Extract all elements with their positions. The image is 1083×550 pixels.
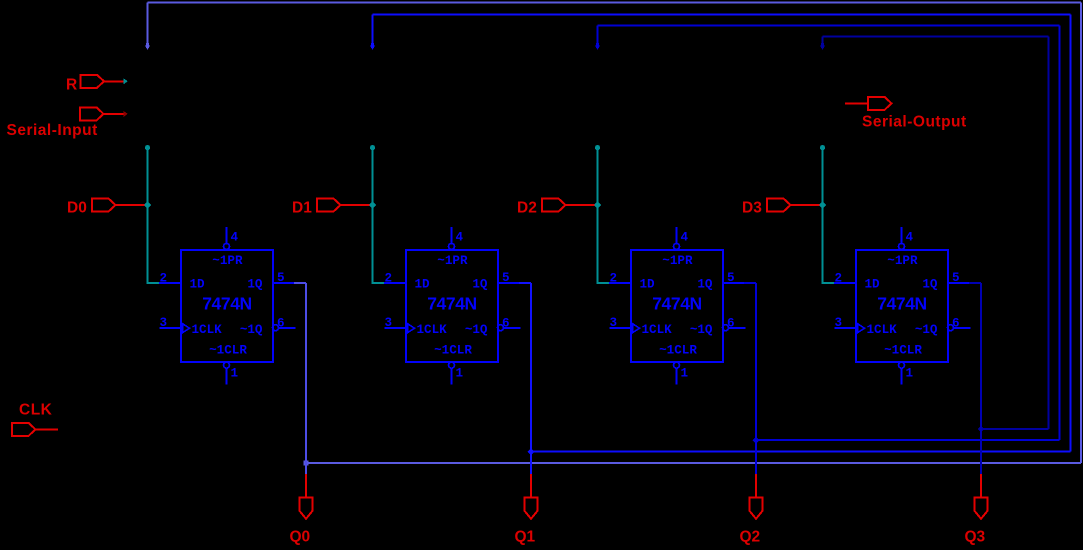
- pin number U2 5: [502, 271, 510, 285]
- pin number U1 5: [277, 271, 285, 285]
- svg-text:7474N: 7474N: [652, 294, 702, 314]
- wire U1 pin 6 stub: [279, 327, 296, 329]
- wire U4 pin 4 stub: [901, 227, 903, 243]
- wire net Q1 right vertical: [1069, 15, 1071, 452]
- clock edge triangle U2 pin 3: [408, 324, 415, 333]
- wire U4 pin 6 stub: [954, 327, 971, 329]
- port Q1: [525, 497, 538, 519]
- wire net Q3 right vertical: [1047, 36, 1049, 429]
- node junction D0 port to column: [144, 201, 151, 208]
- wire net Q1 feedback top horizontal: [373, 14, 1071, 16]
- svg-text:7474N: 7474N: [202, 294, 252, 314]
- wire U2 pin 2 stub: [384, 282, 406, 284]
- svg-text:~1CLR: ~1CLR: [659, 344, 697, 358]
- svg-text:3: 3: [835, 316, 843, 330]
- pin number U2 3: [385, 316, 393, 330]
- svg-text:2: 2: [160, 272, 168, 286]
- wire U1 pin 1 stub: [226, 368, 228, 384]
- label Q1: [515, 529, 536, 546]
- wire net D1 teal vertical column: [372, 147, 374, 285]
- wire port D1 stub: [340, 204, 370, 206]
- node net Serial-Input connector arrow: [123, 111, 127, 117]
- svg-text:1D: 1D: [640, 278, 656, 292]
- port D0: [92, 199, 116, 212]
- wire U4 pin 2 stub: [834, 282, 856, 284]
- svg-text:6: 6: [727, 317, 735, 331]
- node net Q3 on-page connector arrow: [820, 43, 826, 50]
- node net Q1 on-page connector arrow: [370, 43, 376, 50]
- node junction net Q3 at Q column: [978, 426, 985, 433]
- svg-text:1CLK: 1CLK: [642, 323, 673, 337]
- wire port Serial-Input stub: [104, 113, 124, 115]
- port D3: [767, 199, 791, 212]
- pin number U2 2: [385, 272, 393, 286]
- flip-flop U4 7474N body outline: [856, 250, 948, 362]
- node junction net Q2 at Q column: [753, 437, 760, 444]
- wire net Q2 bottom horizontal: [756, 439, 1060, 441]
- wire net Q2 right vertical: [1059, 26, 1061, 441]
- svg-text:Serial-Output: Serial-Output: [862, 114, 967, 131]
- svg-text:2: 2: [385, 272, 393, 286]
- clock edge triangle U1 pin 3: [183, 324, 190, 333]
- wire port Q2 stub: [755, 474, 757, 497]
- wire net Q0 vertical to port: [305, 283, 307, 474]
- svg-text:~1PR: ~1PR: [887, 254, 918, 268]
- pin number U4 1: [906, 367, 914, 381]
- bubble U1 pin 1: [224, 362, 230, 368]
- label D0: [67, 200, 87, 217]
- svg-text:1D: 1D: [415, 278, 431, 292]
- svg-text:2: 2: [835, 272, 843, 286]
- node junction net Q1 at Q column: [528, 448, 535, 455]
- flip-flop U3 7474N body outline: [631, 250, 723, 362]
- wire U3 pin 3 stub: [610, 327, 632, 329]
- wire net Q3 bottom horizontal: [981, 428, 1048, 430]
- op label U1 value 7474N: [202, 294, 252, 314]
- svg-text:CLK: CLK: [19, 402, 53, 419]
- label D1: [292, 200, 312, 217]
- wire net D2 teal horizontal to pin 1D: [598, 282, 611, 284]
- label U4 1D: [865, 278, 881, 292]
- clock edge triangle U4 pin 3: [858, 324, 865, 333]
- svg-text:~1CLR: ~1CLR: [209, 344, 247, 358]
- wire net Q0 right vertical: [1080, 3, 1082, 464]
- wire U3 pin 2 stub: [609, 282, 631, 284]
- svg-text:~1Q: ~1Q: [915, 323, 938, 337]
- svg-text:1CLK: 1CLK: [417, 323, 448, 337]
- wire U4 pin 3 stub: [835, 327, 857, 329]
- svg-text:3: 3: [610, 316, 618, 330]
- pin number U4 3: [835, 316, 843, 330]
- bubble U4 pin 1: [899, 362, 905, 368]
- pin number U3 5: [727, 271, 735, 285]
- pin number U1 3: [160, 316, 168, 330]
- wire U4 pin 1 stub: [901, 368, 903, 384]
- svg-text:3: 3: [385, 316, 393, 330]
- wire net Q0 bottom horizontal: [306, 462, 1081, 464]
- label R: [66, 77, 77, 94]
- svg-text:1Q: 1Q: [922, 278, 938, 292]
- label U1 1Q: [247, 278, 263, 292]
- svg-text:5: 5: [277, 271, 285, 285]
- label Q2: [740, 529, 761, 546]
- svg-text:1: 1: [906, 367, 914, 381]
- wire U2 pin 6 stub: [504, 327, 521, 329]
- svg-text:7474N: 7474N: [427, 294, 477, 314]
- pin number U1 4: [231, 231, 239, 245]
- wire net Q2 vertical to port: [755, 283, 757, 474]
- wire net D0 teal horizontal to pin 1D: [148, 282, 161, 284]
- wire U2 pin 1 stub: [451, 368, 453, 384]
- bubble U4 pin 6: [948, 325, 954, 331]
- label Serial-Output: [862, 114, 967, 131]
- svg-text:~1Q: ~1Q: [240, 323, 263, 337]
- port Q2: [750, 497, 763, 519]
- port Serial-Output: [868, 97, 892, 110]
- wire net D0 teal vertical column: [147, 147, 149, 285]
- label D2: [517, 200, 537, 217]
- port Q3: [975, 497, 988, 519]
- svg-text:3: 3: [160, 316, 168, 330]
- svg-text:6: 6: [502, 317, 510, 331]
- node junction D3 port to column: [819, 201, 826, 208]
- svg-text:Q1: Q1: [515, 529, 536, 546]
- svg-text:~1Q: ~1Q: [465, 323, 488, 337]
- svg-text:D2: D2: [517, 200, 537, 217]
- wire net Q3 left vertical drop: [822, 36, 824, 45]
- label U1 ~1PR: [212, 254, 243, 268]
- bubble U3 pin 4: [674, 243, 680, 249]
- svg-text:1: 1: [231, 367, 239, 381]
- svg-text:6: 6: [952, 317, 960, 331]
- label U1 1D: [190, 278, 206, 292]
- op label U3 value 7474N: [652, 294, 702, 314]
- node net R connector arrow: [123, 78, 127, 84]
- wire net Q3 from U4 pin 5: [969, 282, 981, 284]
- port R: [81, 75, 105, 88]
- wire port D3 stub: [790, 204, 820, 206]
- wire net Q0 feedback top horizontal: [148, 2, 1082, 4]
- wire port CLK stub: [35, 428, 58, 430]
- wire net Q1 from U2 pin 5: [519, 282, 531, 284]
- svg-text:~1Q: ~1Q: [690, 323, 713, 337]
- node net D3 column top connector dot: [820, 145, 825, 150]
- label U2 1Q: [472, 278, 488, 292]
- svg-text:1Q: 1Q: [697, 278, 713, 292]
- svg-text:~1PR: ~1PR: [662, 254, 693, 268]
- label U2 1CLK: [417, 323, 448, 337]
- wire net D3 teal vertical column: [822, 147, 824, 285]
- flip-flop U1 7474N body outline: [181, 250, 273, 362]
- pin number U2 6: [502, 317, 510, 331]
- pin number U3 6: [727, 317, 735, 331]
- node junction net Q0 at Q column: [304, 461, 309, 466]
- label U3 1Q: [697, 278, 713, 292]
- svg-text:Q3: Q3: [965, 529, 986, 546]
- op label U2 value 7474N: [427, 294, 477, 314]
- wire net Q3 feedback top horizontal: [823, 35, 1049, 37]
- wire U2 pin 4 stub: [451, 227, 453, 243]
- wire port Serial-Output stub: [845, 102, 868, 104]
- wire port R stub: [104, 80, 123, 82]
- pin number U4 2: [835, 272, 843, 286]
- bubble U3 pin 6: [723, 325, 729, 331]
- bubble U2 pin 6: [498, 325, 504, 331]
- svg-text:6: 6: [277, 317, 285, 331]
- node junction D2 port to column: [594, 201, 601, 208]
- bubble U4 pin 4: [899, 243, 905, 249]
- wire net Q3 vertical to port: [980, 283, 982, 474]
- svg-text:~1CLR: ~1CLR: [434, 344, 472, 358]
- pin number U1 6: [277, 317, 285, 331]
- wire U3 pin 6 stub: [729, 327, 746, 329]
- wire U1 pin 2 stub: [159, 282, 181, 284]
- wire net Q0 from U1 pin 5: [294, 282, 306, 284]
- svg-text:Serial-Input: Serial-Input: [7, 122, 98, 139]
- wire U2 pin 5 stub: [498, 282, 519, 284]
- label U1 1CLK: [192, 323, 223, 337]
- wire net Q2 left vertical drop: [597, 26, 599, 46]
- label U4 1CLK: [867, 323, 898, 337]
- wire port D2 stub: [565, 204, 595, 206]
- wire U3 pin 4 stub: [676, 227, 678, 243]
- label U3 ~1CLR: [659, 344, 697, 358]
- wire U1 pin 4 stub: [226, 227, 228, 243]
- wire U3 pin 5 stub: [723, 282, 744, 284]
- pin number U4 6: [952, 317, 960, 331]
- svg-text:4: 4: [231, 231, 239, 245]
- wire port D0 stub: [115, 204, 145, 206]
- label U4 ~1Q: [915, 323, 938, 337]
- label U4 ~1PR: [887, 254, 918, 268]
- wire port Q1 stub: [530, 474, 532, 497]
- pin number U3 4: [681, 231, 689, 245]
- clock edge triangle U3 pin 3: [633, 324, 640, 333]
- pin number U4 4: [906, 231, 914, 245]
- label U1 ~1Q: [240, 323, 263, 337]
- svg-text:5: 5: [952, 271, 960, 285]
- wire net D1 teal horizontal to pin 1D: [373, 282, 386, 284]
- svg-text:1D: 1D: [190, 278, 206, 292]
- wire net Q2 from U3 pin 5: [744, 282, 756, 284]
- svg-text:4: 4: [681, 231, 689, 245]
- wire U1 pin 3 stub: [160, 327, 182, 329]
- wire port Q3 stub: [980, 474, 982, 497]
- node net D0 column top connector dot: [145, 145, 150, 150]
- wire U2 pin 3 stub: [385, 327, 407, 329]
- port CLK: [12, 423, 36, 436]
- node net D2 column top connector dot: [595, 145, 600, 150]
- wire port Q0 stub: [305, 474, 307, 497]
- svg-text:Q2: Q2: [740, 529, 761, 546]
- wire net Q2 feedback top horizontal: [598, 25, 1060, 27]
- svg-text:4: 4: [456, 231, 464, 245]
- pin number U3 3: [610, 316, 618, 330]
- port Serial-Input: [80, 107, 104, 120]
- label U1 ~1CLR: [209, 344, 247, 358]
- pin number U2 1: [456, 367, 464, 381]
- svg-text:1: 1: [456, 367, 464, 381]
- svg-text:1: 1: [681, 367, 689, 381]
- svg-text:1CLK: 1CLK: [867, 323, 898, 337]
- node net D1 column top connector dot: [370, 145, 375, 150]
- bubble U1 pin 6: [273, 325, 279, 331]
- label CLK: [19, 402, 53, 419]
- svg-text:D3: D3: [742, 200, 762, 217]
- bubble U2 pin 4: [449, 243, 455, 249]
- bubble U3 pin 1: [674, 362, 680, 368]
- bubble U2 pin 1: [449, 362, 455, 368]
- bubble U1 pin 4: [224, 243, 230, 249]
- wire net Q1 bottom horizontal: [531, 451, 1070, 453]
- node net Q2 on-page connector arrow: [595, 43, 601, 50]
- port D1: [317, 199, 341, 212]
- label U3 1CLK: [642, 323, 673, 337]
- label D3: [742, 200, 762, 217]
- label Q3: [965, 529, 986, 546]
- flip-flop U2 7474N body outline: [406, 250, 498, 362]
- port D2: [542, 199, 566, 212]
- svg-text:7474N: 7474N: [877, 294, 927, 314]
- svg-text:D1: D1: [292, 200, 312, 217]
- op label U4 value 7474N: [877, 294, 927, 314]
- svg-text:~1PR: ~1PR: [212, 254, 243, 268]
- svg-text:1Q: 1Q: [472, 278, 488, 292]
- pin number U3 1: [681, 367, 689, 381]
- svg-text:2: 2: [610, 272, 618, 286]
- wire U4 pin 5 stub: [948, 282, 969, 284]
- label U4 1Q: [922, 278, 938, 292]
- pin number U3 2: [610, 272, 618, 286]
- label Q0: [290, 529, 311, 546]
- svg-text:1Q: 1Q: [247, 278, 263, 292]
- label U3 ~1Q: [690, 323, 713, 337]
- svg-text:4: 4: [906, 231, 914, 245]
- node net Q0 on-page connector arrow: [145, 43, 151, 50]
- label U2 ~1CLR: [434, 344, 472, 358]
- wire net Q1 left vertical drop: [372, 15, 374, 46]
- svg-text:5: 5: [502, 271, 510, 285]
- pin number U2 4: [456, 231, 464, 245]
- svg-text:1D: 1D: [865, 278, 881, 292]
- label Serial-Input: [7, 122, 98, 139]
- label U3 1D: [640, 278, 656, 292]
- svg-text:~1CLR: ~1CLR: [884, 344, 922, 358]
- wire net D2 teal vertical column: [597, 147, 599, 285]
- label U4 ~1CLR: [884, 344, 922, 358]
- node junction D1 port to column: [369, 201, 376, 208]
- svg-text:D0: D0: [67, 200, 87, 217]
- pin number U1 1: [231, 367, 239, 381]
- svg-text:~1PR: ~1PR: [437, 254, 468, 268]
- label U2 1D: [415, 278, 431, 292]
- svg-text:5: 5: [727, 271, 735, 285]
- label U2 ~1Q: [465, 323, 488, 337]
- wire U1 pin 5 stub: [273, 282, 294, 284]
- port Q0: [300, 497, 313, 519]
- svg-text:Q0: Q0: [290, 529, 311, 546]
- svg-text:1CLK: 1CLK: [192, 323, 223, 337]
- pin number U4 5: [952, 271, 960, 285]
- wire U3 pin 1 stub: [676, 368, 678, 384]
- wire net D3 teal horizontal to pin 1D: [823, 282, 836, 284]
- svg-text:R: R: [66, 77, 77, 94]
- wire net Q1 vertical to port: [530, 283, 532, 474]
- wire net Q0 left vertical drop: [147, 3, 149, 46]
- label U3 ~1PR: [662, 254, 693, 268]
- label U2 ~1PR: [437, 254, 468, 268]
- pin number U1 2: [160, 272, 168, 286]
